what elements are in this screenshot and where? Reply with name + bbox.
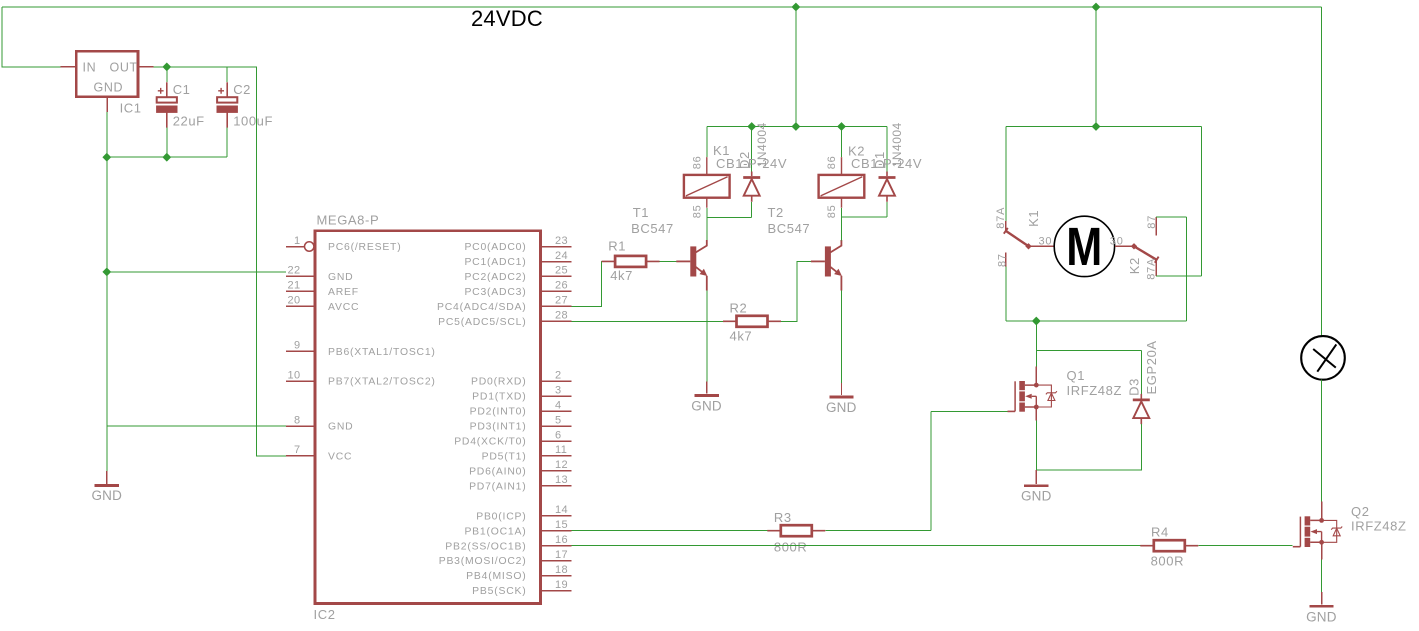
wire lamp to Q2 drain bbox=[1321, 380, 1323, 502]
node junction VCC / C1 bbox=[162, 63, 171, 72]
transistor Q2 IRFZ48Z drain lead bbox=[1321, 502, 1323, 521]
svg-text:D3: D3 bbox=[1127, 378, 1142, 396]
svg-text:22: 22 bbox=[287, 265, 300, 277]
wire top rail to K1 contact 87A bbox=[1005, 127, 1007, 222]
ground symbol T1 bbox=[706, 382, 708, 394]
contact K1 common wire to motor bbox=[1029, 245, 1055, 247]
diode D3 bbox=[1133, 394, 1150, 424]
wire K2 coil to D1 anode bbox=[842, 202, 888, 217]
svg-text:R2: R2 bbox=[730, 300, 748, 315]
svg-text:2: 2 bbox=[555, 369, 562, 381]
wire R4 to Q2 gate bbox=[1198, 545, 1292, 547]
svg-text:4: 4 bbox=[555, 399, 562, 411]
svg-text:PD7(AIN1): PD7(AIN1) bbox=[469, 481, 526, 492]
svg-text:PD6(AIN0): PD6(AIN0) bbox=[469, 467, 526, 478]
svg-text:IC1: IC1 bbox=[120, 101, 142, 116]
svg-text:PD4(XCK/T0): PD4(XCK/T0) bbox=[454, 437, 526, 448]
transistor Q1 IRFZ48Z drain lead bbox=[1035, 366, 1037, 385]
svg-text:GND: GND bbox=[1306, 610, 1337, 625]
voltage regulator IC1 body bbox=[76, 51, 138, 97]
svg-text:30: 30 bbox=[1039, 236, 1053, 248]
resistor R4 bbox=[1140, 540, 1198, 551]
svg-text:18: 18 bbox=[555, 564, 568, 576]
pin 8 GND (left) bbox=[286, 425, 316, 427]
contact K2 pin 87A stub bbox=[1155, 261, 1157, 276]
pin 15 PB1(OC1A) (right) bbox=[541, 530, 572, 532]
contact K1 blade bbox=[1004, 228, 1008, 234]
pin 13 PD7(AIN1) (right) bbox=[541, 485, 572, 487]
svg-text:PD2(INT0): PD2(INT0) bbox=[470, 407, 527, 418]
svg-text:85: 85 bbox=[692, 204, 704, 218]
svg-text:GND: GND bbox=[691, 399, 722, 414]
svg-text:8: 8 bbox=[294, 414, 301, 426]
svg-text:17: 17 bbox=[555, 549, 568, 561]
svg-text:BC547: BC547 bbox=[631, 221, 674, 236]
svg-text:GND: GND bbox=[1021, 489, 1052, 504]
node junction GND / pin22 wire bbox=[102, 268, 111, 277]
contact K2 common wire from motor bbox=[1115, 245, 1134, 247]
wire GND to IC2 pin 8 bbox=[107, 425, 286, 427]
svg-text:87: 87 bbox=[996, 253, 1008, 267]
resistor R1 bbox=[602, 256, 660, 267]
svg-text:12: 12 bbox=[555, 459, 568, 471]
wire 24V drop to lamp bbox=[1321, 7, 1323, 336]
svg-text:IRFZ48Z: IRFZ48Z bbox=[1067, 383, 1122, 398]
wire PB1 pin15 to R3 bbox=[572, 530, 768, 532]
svg-text:100uF: 100uF bbox=[233, 114, 273, 129]
svg-text:OUT: OUT bbox=[110, 61, 138, 75]
microcontroller IC2 MEGA8-P body bbox=[315, 231, 541, 604]
wire K2 coil bottom to T2 collector bbox=[841, 208, 843, 240]
ground symbol Q2 bbox=[1321, 592, 1323, 605]
pin 24 PC1(ADC1) (right) bbox=[541, 261, 572, 263]
node junction 24V rail / relay supply drop bbox=[792, 3, 801, 12]
svg-text:EGP20A: EGP20A bbox=[1144, 340, 1159, 394]
svg-text:GND: GND bbox=[328, 272, 354, 283]
wire K1 coil bottom to T1 collector bbox=[706, 208, 708, 240]
transistor T1 BC547 bbox=[676, 240, 707, 291]
svg-text:11: 11 bbox=[555, 444, 567, 456]
wire Q1 source down bbox=[1035, 421, 1037, 470]
svg-text:16: 16 bbox=[555, 534, 568, 546]
wire K1 coil to D2 anode bbox=[707, 202, 752, 218]
wire K2 87A to right vertical bbox=[1156, 275, 1201, 277]
pin 10 PB7(XTAL2/TOSC2) (left) bbox=[286, 380, 316, 382]
svg-text:T2: T2 bbox=[768, 205, 784, 220]
svg-text:1: 1 bbox=[294, 235, 301, 247]
wire PB2 pin16 to R4 bbox=[572, 545, 1141, 547]
svg-text:BC547: BC547 bbox=[768, 221, 811, 236]
pin 16 PB2(SS/OC1B) (right) bbox=[541, 545, 572, 547]
svg-text:C1: C1 bbox=[173, 82, 191, 97]
svg-text:800R: 800R bbox=[1151, 554, 1184, 569]
svg-text:PC6(/RESET): PC6(/RESET) bbox=[328, 242, 401, 253]
svg-text:1N4004: 1N4004 bbox=[890, 122, 904, 167]
svg-text:R1: R1 bbox=[608, 239, 626, 254]
svg-text:D1: D1 bbox=[872, 151, 887, 169]
svg-text:87: 87 bbox=[1146, 215, 1158, 229]
lamp circle bbox=[1301, 336, 1345, 380]
svg-text:27: 27 bbox=[555, 295, 568, 307]
wire T2 emitter to ground bbox=[841, 291, 843, 384]
svg-text:PB3(MOSI/OC2): PB3(MOSI/OC2) bbox=[439, 556, 527, 567]
wire GND vertical from IC1 bbox=[106, 112, 108, 471]
wire T1 emitter to ground bbox=[706, 291, 708, 382]
svg-text:T1: T1 bbox=[633, 205, 649, 220]
svg-text:6: 6 bbox=[555, 429, 562, 441]
svg-text:PC2(ADC2): PC2(ADC2) bbox=[464, 272, 526, 283]
svg-text:GND: GND bbox=[91, 488, 122, 503]
relay coil K2 bbox=[819, 157, 865, 208]
svg-text:R3: R3 bbox=[774, 510, 792, 525]
wire Q2 source to ground bbox=[1321, 542, 1323, 559]
pin 20 AVCC (left) bbox=[286, 305, 316, 307]
svg-text:20: 20 bbox=[287, 295, 300, 307]
svg-text:GND: GND bbox=[94, 81, 124, 95]
wire C1 bottom to GND rail bbox=[166, 128, 168, 158]
node junction rail / D2 bbox=[747, 122, 756, 131]
pin 4 PD2(INT0) (right) bbox=[541, 410, 572, 412]
svg-text:24: 24 bbox=[555, 250, 568, 262]
wire D3 top drop bbox=[1140, 351, 1142, 394]
pin 17 PB3(MOSI/OC2) (right) bbox=[541, 560, 572, 562]
svg-text:15: 15 bbox=[555, 519, 568, 531]
svg-text:PD1(TXD): PD1(TXD) bbox=[472, 392, 526, 403]
svg-text:D2: D2 bbox=[737, 151, 752, 169]
wire rail to D2 bbox=[751, 127, 753, 172]
wire VCC from IC1 OUT to C1 C2 and down to pin7 bbox=[154, 67, 286, 456]
resistor R2 bbox=[723, 316, 781, 327]
svg-text:AVCC: AVCC bbox=[328, 302, 359, 313]
svg-text:IRFZ48Z: IRFZ48Z bbox=[1351, 519, 1406, 534]
svg-text:14: 14 bbox=[555, 504, 568, 516]
svg-text:PC5(ADC5/SCL): PC5(ADC5/SCL) bbox=[438, 317, 526, 328]
svg-text:13: 13 bbox=[555, 474, 568, 486]
pin 11 PD5(T1) (right) bbox=[541, 455, 572, 457]
node junction GND rail / C1 bbox=[162, 153, 171, 162]
svg-text:86: 86 bbox=[692, 155, 704, 169]
wire relay supply rail bbox=[707, 126, 887, 128]
diode D2 bbox=[743, 172, 760, 202]
svg-text:85: 85 bbox=[826, 204, 838, 218]
svg-text:Q1: Q1 bbox=[1067, 368, 1086, 383]
wire K2 87 to mid vertical bbox=[1156, 216, 1186, 218]
capacitor C1 bbox=[156, 82, 177, 127]
svg-text:87A: 87A bbox=[995, 207, 1007, 229]
node junction rail / K2 coil bbox=[837, 122, 846, 131]
svg-text:M: M bbox=[1066, 217, 1102, 277]
svg-text:PB2(SS/OC1B): PB2(SS/OC1B) bbox=[445, 541, 526, 552]
wire rail to K1 coil bbox=[706, 127, 708, 158]
svg-text:PD0(RXD): PD0(RXD) bbox=[471, 377, 526, 388]
svg-text:PB6(XTAL1/TOSC1): PB6(XTAL1/TOSC1) bbox=[328, 347, 436, 358]
pin 25 PC2(ADC2) (right) bbox=[541, 275, 572, 277]
pin 9 PB6(XTAL1/TOSC1) (left) bbox=[286, 350, 316, 352]
wire K1 contact 87 to bottom rail bbox=[1005, 266, 1007, 321]
svg-text:AREF: AREF bbox=[328, 287, 359, 298]
svg-text:R4: R4 bbox=[1151, 525, 1169, 540]
pin 1 PC6(/RESET) (left) bbox=[286, 246, 305, 248]
svg-text:PB1(OC1A): PB1(OC1A) bbox=[464, 526, 526, 537]
svg-text:PC3(ADC3): PC3(ADC3) bbox=[464, 287, 526, 298]
svg-text:25: 25 bbox=[555, 265, 568, 277]
svg-text:86: 86 bbox=[826, 155, 838, 169]
node junction 24V rail / motor supply drop bbox=[1092, 3, 1101, 12]
svg-text:9: 9 bbox=[294, 340, 301, 352]
svg-text:3: 3 bbox=[555, 384, 562, 396]
wire right vertical from top rail bbox=[1201, 127, 1203, 276]
wire R2 to T2 base bbox=[781, 261, 811, 321]
pin 5 PD3(INT1) (right) bbox=[541, 425, 572, 427]
wire R3 to Q1 gate riser bbox=[825, 412, 931, 531]
wire bottom rail to Q1 drain bbox=[1035, 321, 1037, 366]
wire D3 bottom to Q1 source bbox=[1036, 424, 1141, 470]
pin 14 PB0(ICP) (right) bbox=[541, 515, 572, 517]
pin 2 PD0(RXD) (right) bbox=[541, 380, 572, 382]
contact K2 blade bbox=[1134, 246, 1157, 259]
wire motor bridge top rail bbox=[1006, 126, 1202, 128]
svg-text:PD5(T1): PD5(T1) bbox=[482, 452, 527, 463]
svg-text:21: 21 bbox=[287, 280, 300, 292]
svg-text:K2: K2 bbox=[1127, 257, 1142, 274]
node junction GND rail / vertical bbox=[102, 153, 111, 162]
wire 24VDC left drop to IC1 IN bbox=[2, 7, 61, 67]
svg-text:C2: C2 bbox=[233, 82, 251, 97]
wire motor bridge bottom rail bbox=[1006, 320, 1187, 322]
svg-text:26: 26 bbox=[555, 280, 568, 292]
svg-text:5: 5 bbox=[555, 414, 562, 426]
IC1 pin OUT stub bbox=[138, 66, 154, 68]
capacitor C2 bbox=[217, 82, 238, 127]
wire GND to IC2 pin 22 bbox=[107, 271, 286, 273]
svg-text:PC1(ADC1): PC1(ADC1) bbox=[464, 257, 526, 268]
pin 27 PC4(ADC4/SDA) (right) bbox=[541, 305, 572, 307]
svg-text:VCC: VCC bbox=[328, 452, 352, 463]
svg-text:7: 7 bbox=[294, 444, 301, 456]
pin 26 PC3(ADC3) (right) bbox=[541, 290, 572, 292]
pin 18 PB4(MISO) (right) bbox=[541, 575, 572, 577]
wire R1 to T1 base bbox=[660, 260, 677, 262]
wire GND capacitor bottom rail bbox=[107, 156, 227, 158]
pin 22 GND (left) bbox=[286, 275, 316, 277]
mosfet Q2 bbox=[1293, 516, 1342, 547]
lamp cross bbox=[1313, 344, 1336, 371]
svg-text:1N4004: 1N4004 bbox=[755, 122, 769, 167]
node junction bottom rail / Q1 drain bbox=[1032, 317, 1041, 326]
node junction motor rail / 24V drop bbox=[1092, 122, 1101, 131]
svg-text:PB7(XTAL2/TOSC2): PB7(XTAL2/TOSC2) bbox=[328, 377, 436, 388]
svg-text:28: 28 bbox=[555, 310, 568, 322]
svg-text:800R: 800R bbox=[774, 540, 807, 555]
pin 28 PC5(ADC5/SCL) (right) bbox=[541, 320, 572, 322]
wire 24V drop to relay rail bbox=[795, 7, 797, 127]
wire VCC drop to C2 bbox=[226, 67, 228, 82]
svg-text:GND: GND bbox=[826, 400, 857, 415]
contact K1 pin 87A stub bbox=[1005, 221, 1007, 231]
pin 23 PC0(ADC0) (right) bbox=[541, 246, 572, 248]
pin 7 VCC (left) bbox=[286, 455, 316, 457]
resistor R3 bbox=[767, 525, 825, 536]
ground symbol Q1 bbox=[1035, 407, 1037, 421]
svg-text:K1: K1 bbox=[1026, 210, 1041, 227]
svg-text:22uF: 22uF bbox=[173, 114, 205, 129]
svg-text:PD3(INT1): PD3(INT1) bbox=[470, 422, 527, 433]
wire rail to D1 bbox=[886, 127, 888, 172]
pin 19 PB5(SCK) (right) bbox=[541, 590, 572, 592]
IC1 pin GND stub bbox=[106, 97, 108, 112]
svg-text:PB4(MISO): PB4(MISO) bbox=[466, 571, 526, 582]
svg-text:Q2: Q2 bbox=[1351, 504, 1370, 519]
svg-text:19: 19 bbox=[555, 579, 568, 591]
pin 21 AREF (left) bbox=[286, 290, 316, 292]
wire mid vertical to bottom rail bbox=[1186, 217, 1188, 321]
pin 12 PD6(AIN0) (right) bbox=[541, 470, 572, 472]
svg-text:30: 30 bbox=[1110, 236, 1124, 248]
ground symbol T2 bbox=[841, 383, 843, 395]
transistor T2 BC547 bbox=[811, 240, 842, 291]
IC1 pin IN stub bbox=[61, 66, 77, 68]
svg-text:4k7: 4k7 bbox=[730, 329, 753, 344]
svg-text:PB0(ICP): PB0(ICP) bbox=[476, 511, 526, 522]
wire Q1 drain branch to D3 bbox=[1036, 350, 1141, 352]
svg-text:PB5(SCK): PB5(SCK) bbox=[472, 586, 526, 597]
wire 24V drop to motor bridge rail bbox=[1095, 7, 1097, 127]
svg-text:IN: IN bbox=[83, 61, 97, 75]
ground symbol left bbox=[106, 471, 108, 484]
svg-text:MEGA8-P: MEGA8-P bbox=[317, 213, 380, 228]
svg-text:PC0(ADC0): PC0(ADC0) bbox=[464, 242, 526, 253]
svg-text:PC4(ADC4/SDA): PC4(ADC4/SDA) bbox=[437, 302, 527, 313]
svg-text:4k7: 4k7 bbox=[610, 268, 633, 283]
wire 24VDC top rail bbox=[2, 6, 1322, 8]
svg-text:23: 23 bbox=[555, 235, 568, 247]
node contact K2 common 30 bbox=[1131, 243, 1137, 249]
svg-text:IC2: IC2 bbox=[314, 607, 336, 622]
motor M1 circle bbox=[1054, 216, 1114, 276]
svg-text:24VDC: 24VDC bbox=[471, 6, 543, 31]
wire VCC drop to C1 bbox=[166, 67, 168, 82]
wire PC5 pin28 to R2 bbox=[572, 320, 724, 322]
wire C2 bottom to GND rail bbox=[226, 128, 228, 158]
mosfet Q1 bbox=[1008, 381, 1057, 412]
wire rail to K2 coil bbox=[841, 127, 843, 158]
relay coil K1 bbox=[684, 157, 730, 208]
svg-text:10: 10 bbox=[287, 369, 300, 381]
wire Q1 gate from R3 bbox=[931, 411, 1007, 413]
svg-text:87A: 87A bbox=[1146, 258, 1158, 280]
contact K2 pin 87 stub bbox=[1155, 217, 1157, 235]
node junction rail / 24V drop bbox=[792, 122, 801, 131]
contact K1 pin 87 stub bbox=[1005, 253, 1007, 267]
pin 6 PD4(XCK/T0) (right) bbox=[541, 440, 572, 442]
svg-text:GND: GND bbox=[328, 422, 354, 433]
wire PC4 pin27 to R1 bbox=[572, 261, 602, 306]
node contact K1 common 30 bbox=[1025, 243, 1031, 249]
diode D1 bbox=[879, 172, 896, 202]
pin 3 PD1(TXD) (right) bbox=[541, 395, 572, 397]
